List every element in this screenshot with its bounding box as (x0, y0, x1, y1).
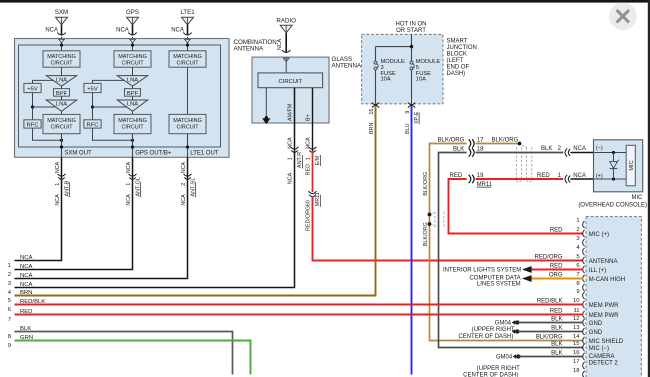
fuse MODULE 3 (374, 61, 377, 64)
svg-text:BLK: BLK (541, 146, 552, 152)
svg-text:DASH): DASH) (447, 71, 466, 77)
svg-text:7: 7 (8, 317, 11, 323)
svg-text:LNA: LNA (56, 77, 67, 83)
glass antenna box (252, 57, 329, 123)
svg-text:MATCHING: MATCHING (47, 54, 76, 60)
wire BLK to mic connector (476, 152, 564, 154)
entry arrow LTE1 (185, 39, 191, 42)
wire RED ref 7 to pin 11 (15, 314, 584, 316)
matching circuit box bottom (LTE1) (169, 114, 206, 133)
amplifier LNA2 (SXM) (46, 100, 76, 111)
svg-text:NCA: NCA (288, 172, 294, 184)
node inner box bottom (SXM) (60, 145, 63, 148)
svg-text:NCA: NCA (181, 194, 187, 206)
svg-text:NCA: NCA (20, 255, 33, 261)
svg-text:SXM: SXM (55, 9, 68, 16)
svg-text:BLK: BLK (453, 146, 464, 152)
wire MC2 to box edge (LTE1) (187, 134, 189, 158)
svg-text:BLU: BLU (405, 123, 411, 134)
node inner box bottom (LTE1) (186, 145, 189, 148)
svg-text:(OVERHEAD CONSOLE): (OVERHEAD CONSOLE) (578, 202, 647, 208)
svg-text:BLK/ORG: BLK/ORG (438, 138, 465, 144)
svg-text:MATCHING: MATCHING (47, 118, 76, 124)
connector at fuse box exit right (408, 103, 415, 105)
wire BLK/ORG to shield (476, 143, 520, 145)
svg-text:GM04: GM04 (495, 321, 512, 327)
svg-text:MATCHING: MATCHING (118, 54, 147, 60)
svg-text:1: 1 (306, 157, 312, 160)
svg-text:NCA: NCA (55, 162, 61, 174)
svg-text:CENTER OF DASH): CENTER OF DASH) (458, 334, 513, 340)
svg-text:(LEFT: (LEFT (447, 58, 464, 64)
wire mic internal positive (594, 178, 627, 180)
connector MR11 pin 19 (469, 175, 471, 183)
svg-text:MATCHING: MATCHING (173, 54, 202, 60)
RFC box (GPS) (84, 120, 101, 128)
wire BRN fuse to left ref 5 (15, 106, 376, 295)
svg-text:MIC (−): MIC (−) (589, 346, 609, 352)
wire RFC to output node (GPS) (93, 128, 133, 140)
ground GM04 pin 12 (515, 320, 519, 324)
svg-text:NCA: NCA (171, 28, 184, 34)
matching circuit box bottom (SXM) (43, 114, 80, 133)
svg-text:GPS OUT/B+: GPS OUT/B+ (135, 150, 172, 156)
combination antenna inner box (19, 45, 221, 147)
wire B+ lead (NCA) (312, 88, 314, 151)
connector radio pin 14 (583, 337, 585, 344)
shield dashes left (434, 212, 436, 227)
svg-text:LTE1: LTE1 (180, 9, 195, 16)
BPF box (GPS) (125, 89, 141, 97)
svg-text:NCA: NCA (126, 194, 132, 206)
svg-text:NCA: NCA (181, 162, 187, 174)
right window edge (648, 0, 650, 377)
svg-text:ORG: ORG (549, 272, 563, 278)
wire LNA2 to MC2 (SXM) (61, 111, 63, 114)
svg-text:CIRCUIT: CIRCUIT (176, 61, 199, 67)
svg-text:(UPPER RIGHT: (UPPER RIGHT (477, 366, 520, 372)
svg-text:16: 16 (573, 350, 580, 356)
wire BLU fuse down off page (411, 106, 413, 374)
connector radio pin 11 (583, 311, 585, 318)
mic box (594, 140, 643, 192)
svg-text:1: 1 (55, 183, 61, 186)
node +5V branch (GPS) (91, 105, 94, 108)
node inner box bottom (GPS) (131, 145, 134, 148)
svg-text:MIC: MIC (629, 160, 635, 170)
svg-text:MIC (+): MIC (+) (589, 232, 609, 238)
svg-text:MATCHING: MATCHING (118, 118, 147, 124)
svg-text:NCA: NCA (20, 273, 33, 279)
svg-text:18: 18 (477, 146, 484, 152)
node shield drain top (518, 142, 522, 146)
amplifier LNA2 (GPS) (117, 100, 147, 111)
svg-text:CIRCUIT: CIRCUIT (279, 79, 303, 85)
wire RED to mic connector (476, 178, 564, 180)
svg-text:RED: RED (550, 263, 563, 269)
node RFC join (GPS) (131, 139, 134, 142)
combination antenna outer box (15, 39, 230, 158)
wire MC1 to LNA1 (GPS) (132, 67, 134, 75)
wire branch to LNA2 (SXM) (33, 106, 57, 108)
connector MR11 pin 18 (469, 148, 471, 156)
wire MC2 to box edge (SXM) (61, 134, 63, 158)
radio unit box (586, 217, 641, 377)
svg-text:RED/BLK: RED/BLK (537, 298, 563, 304)
svg-text:CIRCUIT: CIRCUIT (176, 124, 199, 130)
svg-text:NCA: NCA (277, 39, 283, 51)
svg-text:BLK/ORG: BLK/ORG (536, 334, 563, 340)
svg-text:17: 17 (573, 359, 580, 365)
wire BPF to LNA2 (SXM) (61, 96, 63, 100)
connector radio pin 7 (583, 275, 585, 282)
svg-text:OR START: OR START (396, 28, 426, 34)
svg-text:CENTER OF DASH): CENTER OF DASH) (463, 373, 518, 377)
connector radio pin 2 (583, 230, 585, 237)
connector MR11 pin 60 on B+ wire (309, 191, 317, 193)
entry arrow RADIO (283, 58, 289, 61)
svg-text:CIRCUIT: CIRCUIT (50, 124, 73, 130)
wire BLK ref 8 down (15, 332, 233, 375)
connector mic pin 2 (565, 148, 567, 156)
fuse MODULE 3 lower lead (375, 70, 377, 104)
svg-text:12: 12 (573, 316, 580, 322)
wire +5V down (GPS) (92, 93, 94, 120)
svg-text:RADIO: RADIO (276, 17, 296, 24)
svg-text:BLK: BLK (551, 350, 562, 356)
connector on AM/FM wire (291, 147, 299, 149)
svg-text:13: 13 (573, 325, 580, 331)
wire SXM antenna lead into box (61, 37, 63, 51)
svg-text:BLK: BLK (551, 341, 562, 347)
shield dashes top right (522, 145, 527, 149)
mic element box (626, 145, 635, 186)
svg-text:INTERIOR LIGHTS SYSTEM: INTERIOR LIGHTS SYSTEM (443, 268, 521, 274)
node RFC join (SXM) (60, 139, 63, 142)
svg-text:1: 1 (288, 157, 294, 160)
svg-text:SXM OUT: SXM OUT (64, 150, 92, 156)
node mic neg (612, 151, 615, 154)
svg-text:AM/FM: AM/FM (288, 103, 294, 121)
matching circuit box top (GPS) (114, 51, 151, 67)
wire BLK/ORG shield drain (430, 144, 584, 341)
connector radio pin 12 (583, 319, 585, 326)
node shield drain left bottom (428, 222, 432, 226)
entry arrow GPS (130, 39, 136, 42)
connector radio pin 18 (583, 371, 585, 377)
svg-text:BLK/ORG: BLK/ORG (423, 172, 429, 196)
svg-text:BPF: BPF (127, 91, 139, 97)
wire LTE1 antenna lead into box (187, 37, 189, 51)
smart junction block box (362, 34, 443, 103)
wire circuit to ground (265, 88, 267, 118)
svg-text:ANTENNA: ANTENNA (589, 259, 618, 265)
connector at fuse box exit left (372, 103, 379, 105)
node SXM antenna input (60, 43, 63, 46)
svg-text:MIC SHIELD: MIC SHIELD (589, 339, 624, 345)
svg-text:RED/ORG: RED/ORG (534, 254, 562, 260)
svg-text:MATCHING: MATCHING (173, 118, 202, 124)
matching circuit box top (LTE1) (169, 51, 206, 67)
connector radio pin 16 (583, 353, 585, 360)
svg-text:HOT IN ON: HOT IN ON (396, 22, 427, 28)
svg-text:MEM PWR: MEM PWR (589, 303, 619, 309)
svg-text:1: 1 (8, 263, 11, 269)
wire NCA into mic (-) (570, 152, 593, 154)
svg-text:COMPUTER DATA: COMPUTER DATA (469, 275, 520, 281)
svg-text:GPS: GPS (126, 9, 139, 16)
wire mic internal negative (594, 152, 627, 154)
+5V box (GPS) (84, 83, 101, 92)
svg-text:19: 19 (477, 173, 484, 179)
svg-text:RED: RED (550, 308, 563, 314)
node ground junction (265, 116, 268, 119)
svg-text:2: 2 (8, 272, 11, 278)
fuse MODULE 5 (410, 61, 413, 64)
wire BLK pin 16 (519, 356, 584, 358)
ground GM04 pin 16 (516, 354, 520, 358)
svg-text:2: 2 (576, 227, 579, 233)
svg-text:GM04: GM04 (496, 355, 513, 361)
svg-text:BLK/ORG: BLK/ORG (423, 222, 429, 246)
node LTE1 antenna input (186, 43, 189, 46)
wire BLK mic negative (439, 153, 584, 348)
svg-text:15: 15 (573, 341, 580, 347)
wire RED to pin 6 (531, 269, 583, 271)
svg-text:RED/ORG: RED/ORG (306, 206, 312, 231)
wire B+ RED segment (312, 151, 314, 192)
svg-text:ILL (+): ILL (+) (589, 268, 606, 274)
wire LNA1 to BPF (SXM) (61, 86, 63, 88)
svg-text:RED: RED (306, 164, 312, 175)
svg-text:10A: 10A (416, 77, 426, 83)
connector radio pin 9 (583, 292, 585, 299)
connector radio pin 6 (583, 266, 585, 273)
svg-text:GND: GND (589, 321, 603, 327)
connector radio pin 13 (583, 328, 585, 335)
wire +5V down (SXM) (32, 93, 34, 120)
svg-text:GND: GND (589, 330, 603, 336)
connector radio pin 15 (583, 344, 585, 351)
wire GRN ref 9 down (15, 341, 251, 375)
svg-text:NCA: NCA (55, 194, 61, 206)
svg-text:RED: RED (537, 173, 550, 179)
connector on B+ wire E/M (309, 147, 317, 149)
svg-text:7: 7 (576, 272, 579, 278)
wire SXM OUT down to left ref 1 (15, 157, 62, 260)
top window bar (0, 0, 650, 3)
wire BLK pin 12 (518, 322, 584, 324)
connector MR11 pin 17 (469, 139, 471, 147)
wire GPS OUT down to left ref 2 (15, 157, 133, 269)
arrow computer data (523, 275, 532, 281)
svg-text:NCA: NCA (116, 28, 129, 34)
svg-text:10A: 10A (381, 77, 391, 83)
wire ORG to pin 7 (531, 278, 583, 280)
svg-text:NCA: NCA (573, 173, 586, 179)
wire RFC to output node (SXM) (33, 128, 62, 140)
svg-text:SMART: SMART (447, 38, 468, 44)
svg-text:(−): (−) (596, 146, 603, 152)
svg-text:RFC: RFC (87, 122, 99, 128)
svg-text:END OF: END OF (447, 64, 470, 70)
svg-text:LTE1 OUT: LTE1 OUT (190, 150, 219, 156)
connector radio pin 5 (583, 257, 585, 264)
wire MC1 to MC2 (LTE1) (187, 67, 189, 114)
wire LNA1 to BPF (GPS) (132, 86, 134, 88)
entry arrow SXM (59, 39, 65, 42)
svg-text:BLK: BLK (551, 316, 562, 322)
svg-text:NCA: NCA (45, 28, 58, 34)
svg-text:MODULE: MODULE (381, 59, 406, 65)
svg-text:NCA: NCA (573, 146, 586, 152)
connector radio pin 1 (583, 221, 585, 228)
svg-text:RED: RED (450, 173, 463, 179)
svg-text:CIRCUIT: CIRCUIT (121, 124, 144, 130)
RFC box (SXM) (24, 120, 41, 128)
matching circuit box top (SXM) (43, 51, 80, 67)
svg-text:M-CAN HIGH: M-CAN HIGH (589, 277, 625, 283)
svg-text:2: 2 (181, 183, 187, 186)
+5V box (SXM) (24, 83, 41, 92)
wire RED/ORG to radio pin 5 (313, 197, 584, 261)
wire NCA into mic (+) (570, 178, 593, 180)
circuit box (258, 73, 323, 88)
svg-text:+5V: +5V (87, 87, 98, 93)
svg-text:ANTENNA: ANTENNA (332, 63, 362, 70)
svg-text:RFC: RFC (27, 122, 39, 128)
wire LTE1 OUT down to left ref 3 (15, 157, 188, 278)
wire LNA2 to MC2 (GPS) (132, 111, 134, 114)
matching circuit box bottom (GPS) (114, 114, 151, 133)
wire BPF to LNA2 (GPS) (132, 96, 134, 100)
wire MC1 to LNA1 (SXM) (61, 67, 63, 75)
svg-text:BLOCK: BLOCK (447, 51, 467, 57)
svg-text:DETECT 2: DETECT 2 (589, 360, 619, 366)
diode mic (613, 153, 615, 162)
svg-text:9: 9 (8, 343, 11, 349)
svg-text:LNA: LNA (127, 102, 138, 108)
svg-text:9: 9 (576, 289, 579, 295)
svg-text:BLK: BLK (551, 325, 562, 331)
ground GM04 pin 13 (515, 329, 519, 333)
amplifier LNA1 (GPS) (117, 76, 147, 87)
svg-text:CIRCUIT: CIRCUIT (50, 61, 73, 67)
connector radio pin 3 (583, 239, 585, 246)
svg-text:16: 16 (369, 109, 375, 115)
wire RED mic positive (449, 179, 584, 234)
connector radio pin 4 (583, 248, 585, 255)
svg-text:60: 60 (306, 200, 312, 206)
wire +5V feed to LNA1 (SXM) (33, 80, 55, 83)
svg-text:11: 11 (573, 308, 579, 314)
connector mic pin 1 (565, 175, 567, 183)
svg-text:9: 9 (405, 111, 411, 114)
wire BLK pin 13 (518, 331, 584, 333)
node shield drain left top (428, 213, 432, 217)
wire GPS antenna lead into box (132, 37, 134, 51)
wire fuse bus (376, 34, 412, 61)
svg-text:ANTENNA: ANTENNA (234, 46, 264, 53)
svg-text:RED: RED (550, 227, 563, 233)
node GPS antenna input (131, 43, 134, 46)
wire RED/BLK ref 6 to pin 10 (15, 304, 584, 306)
node fuse bus junction (410, 45, 413, 48)
svg-text:B+: B+ (306, 114, 312, 121)
connector radio pin 17 (583, 362, 585, 369)
svg-text:LNA: LNA (127, 77, 138, 83)
connector radio pin 8 (583, 284, 585, 291)
svg-text:LINES SYSTEM: LINES SYSTEM (477, 282, 521, 288)
svg-text:+5V: +5V (27, 87, 38, 93)
wire AM/FM vertical to left ref 4 (15, 88, 295, 288)
svg-text:1: 1 (126, 183, 132, 186)
svg-text:MODULE: MODULE (416, 59, 441, 65)
amplifier LNA1 (SXM) (46, 76, 76, 87)
node +5V branch (SXM) (31, 105, 34, 108)
svg-text:18: 18 (573, 368, 580, 374)
arrow interior lights (523, 266, 532, 272)
svg-text:CAMERA: CAMERA (589, 354, 615, 360)
svg-text:BPF: BPF (56, 91, 68, 97)
svg-text:MEM PWR: MEM PWR (589, 313, 619, 319)
svg-text:CIRCUIT: CIRCUIT (121, 61, 144, 67)
svg-text:BLK/ORG: BLK/ORG (492, 138, 519, 144)
svg-text:MIC: MIC (632, 195, 644, 201)
close button (609, 2, 637, 30)
fuse MODULE 5 lower lead (411, 70, 413, 104)
svg-text:JUNCTION: JUNCTION (447, 45, 477, 51)
svg-text:14: 14 (573, 334, 580, 340)
svg-text:LNA: LNA (56, 102, 67, 108)
wire MC2 to box edge (GPS) (132, 134, 134, 158)
BPF box (SXM) (54, 89, 70, 97)
wire +5V feed to LNA1 (GPS) (93, 80, 126, 83)
connector radio pin 10 (583, 301, 585, 308)
svg-text:10: 10 (573, 298, 580, 304)
wire radio lead to circuit (285, 57, 287, 73)
ground symbol (263, 119, 270, 124)
wire branch to LNA2 (GPS) (93, 106, 128, 108)
node mic pos (612, 177, 615, 180)
svg-text:1: 1 (576, 218, 579, 224)
svg-text:NCA: NCA (126, 162, 132, 174)
svg-text:BRN: BRN (369, 123, 375, 134)
svg-text:(UPPER RIGHT: (UPPER RIGHT (472, 327, 515, 333)
svg-text:NCA: NCA (20, 264, 33, 270)
